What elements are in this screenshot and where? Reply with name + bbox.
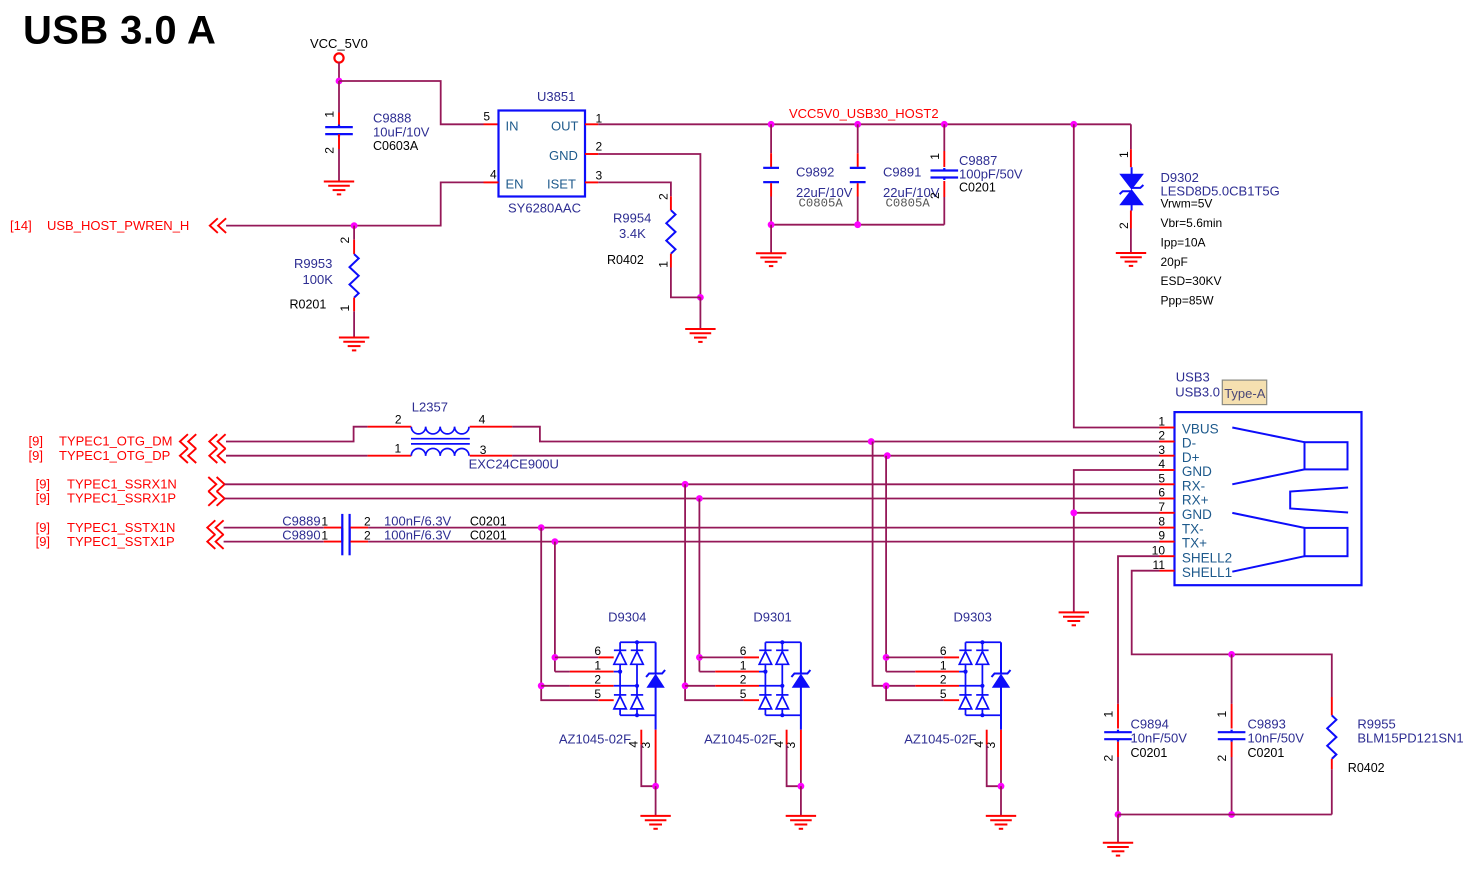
- svg-text:ESD=30KV: ESD=30KV: [1161, 274, 1222, 288]
- wire SHELL1 to R9955 top: [1132, 571, 1332, 697]
- wire D9304 pin2 branch: [541, 685, 570, 687]
- junction D9304 pins 3/4: [652, 783, 659, 790]
- pin 1 stub R9955: [1331, 697, 1333, 715]
- wire shell ground rail: [1118, 814, 1332, 816]
- svg-text:1: 1: [395, 442, 402, 456]
- junction D9301 pins 3/4: [798, 783, 805, 790]
- svg-text:C0603A: C0603A: [373, 139, 419, 153]
- wire GND pin7: [1074, 512, 1160, 514]
- off-page chevron TYPEC1_SSRX1N: [208, 477, 224, 492]
- connector USB3 body: [1175, 412, 1362, 585]
- wire D9301 pin4 to junction: [787, 745, 801, 787]
- junction D9301 pin6: [696, 654, 703, 661]
- wire D9303 pin4 to junction: [987, 745, 1001, 787]
- svg-text:USB 3.0 A: USB 3.0 A: [23, 8, 216, 52]
- pin 9 stub connector TX+: [1160, 541, 1175, 543]
- pin 5 stub D9304: [598, 699, 613, 701]
- svg-text:6: 6: [1158, 486, 1165, 500]
- wire SSRX1P to connector: [225, 498, 1160, 500]
- junction D- drop: [868, 438, 875, 445]
- svg-text:2: 2: [364, 529, 371, 543]
- wire C9893 to rail: [1231, 757, 1233, 815]
- diode array D9304 AZ1045-02F body: [614, 642, 656, 715]
- svg-text:1: 1: [323, 111, 337, 118]
- svg-text:Vbr=5.6min: Vbr=5.6min: [1161, 216, 1223, 230]
- wire D+ to connector: [887, 455, 1159, 457]
- ground below U3851: [685, 329, 715, 342]
- junction SSRX1P drop: [696, 495, 703, 502]
- ground below D9303: [986, 816, 1016, 829]
- wire rail to C9892: [770, 124, 772, 153]
- wire cap ground rail: [771, 224, 944, 226]
- ground below R9953: [339, 338, 369, 351]
- wire to C9888: [338, 81, 340, 113]
- junction C9892 top: [768, 121, 775, 128]
- svg-text:2: 2: [1215, 755, 1229, 762]
- wire D9304 N drop: [541, 528, 598, 701]
- wire to R9953: [353, 226, 355, 240]
- pin 4 stub D9303: [986, 730, 988, 745]
- svg-text:5: 5: [1158, 471, 1165, 485]
- pin 1 stub connector VBUS: [1160, 427, 1175, 429]
- svg-text:2: 2: [338, 237, 352, 244]
- junction VCC node: [336, 78, 343, 85]
- diode array D9301 AZ1045-02F body: [759, 642, 801, 715]
- op-amp U1 power switch U3851 SY6280AAC body: [499, 111, 586, 197]
- svg-text:AZ1045-02F: AZ1045-02F: [559, 732, 631, 747]
- pin 6 stub D9301: [744, 656, 759, 658]
- svg-text:GND: GND: [1182, 507, 1212, 522]
- svg-text:TX+: TX+: [1182, 536, 1207, 551]
- pin 1 stub R9954: [670, 254, 672, 268]
- off-page chevrons TYPEC1_OTG_DP: [180, 448, 196, 463]
- wire D9303 pin3 to junction: [1000, 770, 1002, 786]
- svg-text:[9]: [9]: [36, 520, 50, 535]
- junction C9893 top: [1228, 651, 1235, 658]
- wire rail to D9302: [1130, 124, 1132, 149]
- pin 3 stub L2357: [470, 455, 512, 457]
- ground below C9894: [1103, 843, 1133, 856]
- svg-text:SHELL2: SHELL2: [1182, 550, 1232, 565]
- wire D9302 to ground: [1130, 229, 1132, 254]
- svg-text:1: 1: [928, 153, 942, 160]
- svg-text:10nF/50V: 10nF/50V: [1131, 730, 1188, 745]
- svg-text:5: 5: [483, 110, 490, 124]
- pin 2 stub R9955: [1331, 759, 1333, 769]
- wire D9304 pin3 to junction: [655, 770, 657, 786]
- pin 3 stub D9304: [655, 730, 657, 770]
- svg-text:R9955: R9955: [1357, 717, 1395, 732]
- wire OTG_DM to L2357 pin2: [226, 427, 368, 442]
- wire C9889 to connector TX-: [368, 527, 1159, 529]
- USB receptacle icon: [1232, 428, 1348, 572]
- svg-text:[9]: [9]: [36, 491, 50, 506]
- svg-text:100nF/6.3V: 100nF/6.3V: [384, 528, 452, 543]
- wire GND pin4 down: [1074, 470, 1160, 612]
- wire D9303 pin5 branch: [886, 686, 944, 700]
- svg-text:C0201: C0201: [959, 181, 996, 195]
- wire C9888 to ground: [338, 149, 340, 182]
- wire to ground symbol: [699, 297, 701, 329]
- wire GND pin to ground: [598, 154, 700, 297]
- capacitor C9894: [1104, 730, 1132, 742]
- svg-text:2: 2: [596, 140, 603, 154]
- svg-text:5: 5: [594, 687, 601, 701]
- wire D9301 to ground: [800, 786, 802, 816]
- svg-text:TYPEC1_SSRX1N: TYPEC1_SSRX1N: [67, 477, 177, 492]
- off-page connector chevron USB_HOST_PWREN_H: [210, 218, 226, 233]
- svg-text:100K: 100K: [303, 272, 334, 287]
- svg-text:1: 1: [656, 261, 670, 268]
- pin 5 stub connector RX-: [1160, 483, 1175, 485]
- off-page chevron TYPEC1_SSTX1N: [207, 520, 223, 535]
- svg-text:1: 1: [594, 658, 601, 672]
- wire C9890 to connector TX+: [368, 541, 1159, 543]
- svg-text:2: 2: [940, 673, 947, 687]
- svg-text:D9304: D9304: [608, 610, 646, 625]
- wire R9955 to rail: [1331, 769, 1333, 814]
- wire rail to ground: [1117, 815, 1119, 843]
- svg-text:SHELL1: SHELL1: [1182, 565, 1232, 580]
- svg-text:2: 2: [740, 673, 747, 687]
- pin 1 stub C9892: [770, 153, 772, 167]
- svg-text:2: 2: [323, 147, 337, 154]
- wire SHELL2 to C9894: [1118, 556, 1160, 704]
- svg-text:[9]: [9]: [29, 434, 43, 449]
- wire D9303 N drop: [873, 442, 916, 686]
- wire C9887 down: [943, 197, 945, 225]
- junction GND pins: [1070, 509, 1077, 516]
- svg-text:2: 2: [594, 673, 601, 687]
- power symbol VCC_5V0: [334, 53, 343, 62]
- wire SSTX1P to C9890: [224, 541, 324, 543]
- svg-text:C0201: C0201: [1248, 746, 1285, 760]
- pin 10 stub connector SHELL2: [1160, 555, 1175, 557]
- pin 2 stub GND: [585, 153, 598, 155]
- junction SSTX1P drop: [552, 538, 559, 545]
- inductor L2357 common-mode choke: [411, 427, 470, 456]
- pin 3 stub connector D+: [1160, 455, 1175, 457]
- pin 4 stub connector GND: [1160, 469, 1175, 471]
- wire C9894 to rail: [1117, 757, 1119, 815]
- capacitor C9892: [763, 168, 779, 182]
- pin 1 stub C9890: [324, 541, 342, 543]
- svg-text:EXC24CE900U: EXC24CE900U: [469, 457, 559, 472]
- ground below C9888: [324, 182, 354, 195]
- pin 1 stub C9891: [857, 153, 859, 167]
- wire L2357 pin4 to D- net: [512, 427, 871, 442]
- svg-text:C0201: C0201: [470, 529, 507, 543]
- svg-text:2: 2: [395, 412, 402, 426]
- svg-text:3: 3: [1158, 443, 1165, 457]
- pin 6 stub D9303: [944, 656, 959, 658]
- svg-text:RX+: RX+: [1182, 493, 1209, 508]
- junction C9891 bottom: [854, 221, 861, 228]
- capacitor C9891: [850, 168, 866, 182]
- diode array D9303 AZ1045-02F body: [959, 642, 1001, 715]
- junction D9304 pin2: [538, 682, 545, 689]
- svg-text:TYPEC1_SSTX1P: TYPEC1_SSTX1P: [67, 534, 175, 549]
- wire VCC5V0_USB30_HOST2 rail: [598, 123, 1131, 125]
- wire USB_HOST_PWREN_H to EN: [226, 182, 483, 225]
- junction C9887 top: [941, 121, 948, 128]
- svg-text:6: 6: [940, 644, 947, 658]
- svg-text:R0201: R0201: [290, 298, 327, 312]
- pin 1 stub C9893: [1231, 704, 1233, 729]
- wire SSRX1N to connector: [225, 483, 1160, 485]
- resistor R9953: [350, 254, 359, 298]
- pin 5 stub D9303: [944, 699, 959, 701]
- wire D9303 pin6 branch: [886, 656, 944, 658]
- junction D9304 pin6: [552, 654, 559, 661]
- svg-text:IN: IN: [506, 118, 519, 133]
- svg-text:L2357: L2357: [412, 400, 448, 415]
- svg-text:[9]: [9]: [29, 448, 43, 463]
- svg-text:4: 4: [1158, 457, 1165, 471]
- pin 1 stub D9304: [570, 671, 614, 673]
- wire R9954 to GND node: [671, 268, 701, 298]
- svg-text:VCC5V0_USB30_HOST2: VCC5V0_USB30_HOST2: [789, 106, 939, 121]
- capacitor C9890: [342, 528, 349, 555]
- junction D9303 pins 3/4: [998, 783, 1005, 790]
- pin 4 stub D9304: [640, 730, 642, 745]
- ground below D9304: [640, 816, 670, 829]
- pin 2 stub C9892: [770, 183, 772, 196]
- pin 5 stub IN: [484, 123, 499, 125]
- svg-text:1: 1: [1117, 151, 1131, 158]
- pin 1 stub D9302: [1130, 149, 1132, 167]
- pin 3 stub D9303: [1000, 730, 1002, 770]
- svg-text:EN: EN: [506, 176, 524, 191]
- junction SSTX1N drop: [538, 524, 545, 531]
- off-page chevrons TYPEC1_OTG_DM: [180, 434, 196, 449]
- capacitor C9893: [1218, 730, 1246, 742]
- svg-text:TYPEC1_OTG_DP: TYPEC1_OTG_DP: [59, 448, 170, 463]
- svg-text:C9888: C9888: [373, 111, 411, 126]
- svg-text:9: 9: [1158, 529, 1165, 543]
- pin 2 stub connector D-: [1160, 441, 1175, 443]
- pin 1 stub C9894: [1117, 704, 1119, 729]
- pin 1 stub R9953: [353, 298, 355, 312]
- resistor R9955: [1327, 715, 1336, 759]
- svg-text:R0402: R0402: [607, 253, 644, 267]
- svg-text:D-: D-: [1182, 436, 1196, 451]
- junction VBUS drop: [1070, 121, 1077, 128]
- pin 3 stub D9301: [800, 730, 802, 770]
- svg-text:4: 4: [490, 168, 497, 182]
- pin 2 stub D9301: [715, 685, 759, 687]
- wire D9301 pin3 to junction: [800, 770, 802, 786]
- pin 1 stub C9889: [324, 527, 342, 529]
- svg-text:5: 5: [940, 687, 947, 701]
- svg-text:D9303: D9303: [954, 610, 992, 625]
- junction SSRX1N drop: [682, 481, 689, 488]
- svg-text:R9953: R9953: [294, 256, 332, 271]
- svg-text:20pF: 20pF: [1161, 255, 1188, 269]
- pin 1 stub L2357: [368, 455, 412, 457]
- svg-text:2: 2: [656, 193, 670, 200]
- pin 2 stub R9954: [670, 196, 672, 210]
- svg-text:USB3: USB3: [1176, 370, 1210, 385]
- wire D9304 pin1: [555, 671, 570, 673]
- svg-text:1: 1: [740, 658, 747, 672]
- svg-text:R0402: R0402: [1348, 761, 1385, 775]
- junction ground rail mid: [1228, 811, 1235, 818]
- ground below D9301: [786, 816, 816, 829]
- svg-text:Vrwm=5V: Vrwm=5V: [1161, 197, 1213, 211]
- wire D9301 pin1: [699, 671, 715, 673]
- wire D9301 N drop: [685, 484, 744, 700]
- svg-text:100pF/50V: 100pF/50V: [959, 166, 1023, 181]
- svg-text:[9]: [9]: [36, 534, 50, 549]
- junction D9303 pin2 branch: [883, 682, 890, 689]
- wire D9303 to ground: [1000, 786, 1002, 816]
- off-page chevron TYPEC1_SSRX1P: [208, 491, 224, 506]
- svg-text:10nF/50V: 10nF/50V: [1248, 730, 1305, 745]
- svg-text:TYPEC1_SSRX1P: TYPEC1_SSRX1P: [67, 491, 176, 506]
- pin 1 stub C9888: [338, 113, 340, 128]
- svg-text:R9954: R9954: [613, 211, 651, 226]
- pin 5 stub D9301: [744, 699, 759, 701]
- svg-text:Ipp=10A: Ipp=10A: [1161, 235, 1206, 249]
- svg-text:C9893: C9893: [1248, 717, 1286, 732]
- svg-text:C0805A: C0805A: [799, 196, 844, 210]
- pin 8 stub connector TX-: [1160, 527, 1175, 529]
- svg-text:VCC_5V0: VCC_5V0: [310, 36, 368, 51]
- off-page chevron TYPEC1_SSTX1P: [207, 534, 223, 549]
- pin 2 stub C9894: [1117, 742, 1119, 757]
- pin 4 stub L2357: [470, 426, 512, 428]
- svg-text:2: 2: [1158, 429, 1165, 443]
- wire C9892 to rail: [770, 197, 772, 225]
- svg-text:1: 1: [321, 515, 328, 529]
- ground below caps: [756, 253, 786, 266]
- svg-text:C9889: C9889: [282, 514, 320, 529]
- svg-text:TYPEC1_OTG_DM: TYPEC1_OTG_DM: [59, 434, 172, 449]
- pin 2 stub D9304: [570, 685, 614, 687]
- junction R9953 top: [351, 222, 358, 229]
- svg-text:1: 1: [338, 305, 352, 312]
- svg-text:2: 2: [1117, 222, 1131, 229]
- junction ground rail left: [1115, 811, 1122, 818]
- svg-text:BLM15PD121SN1: BLM15PD121SN1: [1357, 730, 1463, 745]
- wire ISET to R9954: [598, 182, 671, 196]
- pin 4 stub D9301: [786, 730, 788, 745]
- pin 2 stub C9889: [350, 527, 368, 529]
- pin 1 stub OUT: [585, 123, 598, 125]
- svg-text:C9892: C9892: [796, 164, 834, 179]
- svg-text:[14]: [14]: [10, 218, 32, 233]
- svg-text:2: 2: [364, 515, 371, 529]
- pin 1 stub D9303: [915, 671, 959, 673]
- pin 2 stub C9893: [1231, 742, 1233, 757]
- wire to C9893: [1231, 654, 1233, 704]
- wire OTG_DP to L2357 pin1: [226, 455, 368, 457]
- svg-text:C9890: C9890: [282, 528, 320, 543]
- svg-text:RX-: RX-: [1182, 478, 1205, 493]
- ground below connector: [1059, 612, 1089, 625]
- pin 4 stub EN: [484, 181, 499, 183]
- svg-text:TYPEC1_SSTX1N: TYPEC1_SSTX1N: [67, 520, 175, 535]
- svg-text:C0201: C0201: [1131, 746, 1168, 760]
- svg-text:C9894: C9894: [1131, 717, 1169, 732]
- resistor R9954: [666, 210, 675, 254]
- svg-text:ISET: ISET: [547, 176, 576, 191]
- capacitor C9889: [342, 514, 349, 542]
- svg-text:2: 2: [928, 192, 942, 199]
- svg-text:100nF/6.3V: 100nF/6.3V: [384, 514, 452, 529]
- svg-text:10: 10: [1152, 543, 1166, 557]
- svg-text:OUT: OUT: [551, 118, 579, 133]
- capacitor C9887: [931, 168, 959, 180]
- wire rail to C9887: [943, 124, 945, 151]
- svg-text:5: 5: [740, 687, 747, 701]
- svg-text:3: 3: [596, 169, 603, 183]
- svg-text:GND: GND: [549, 148, 578, 163]
- pin 2 stub D9302: [1130, 211, 1132, 229]
- wire C9891 to rail: [857, 197, 859, 225]
- junction C9891 top: [854, 121, 861, 128]
- svg-text:Type-A: Type-A: [1224, 386, 1266, 401]
- svg-text:4: 4: [479, 412, 486, 426]
- svg-text:U3851: U3851: [537, 89, 575, 104]
- junction C9892 bottom: [768, 221, 775, 228]
- svg-text:SY6280AAC: SY6280AAC: [508, 201, 581, 216]
- wire VCC_5V0 to IN: [339, 81, 484, 124]
- tag Type-A: [1222, 380, 1266, 405]
- svg-text:D+: D+: [1182, 450, 1200, 465]
- TVS diode D9302 bowtie: [1121, 175, 1143, 205]
- junction GND/ISET node: [697, 294, 704, 301]
- svg-text:USB_HOST_PWREN_H: USB_HOST_PWREN_H: [47, 218, 189, 233]
- svg-text:1: 1: [1158, 415, 1165, 429]
- svg-text:3.4K: 3.4K: [619, 226, 646, 241]
- wire D- to connector: [871, 441, 1159, 443]
- svg-text:AZ1045-02F: AZ1045-02F: [904, 732, 976, 747]
- svg-text:1: 1: [1215, 711, 1229, 718]
- svg-text:Ppp=85W: Ppp=85W: [1161, 293, 1215, 307]
- wire D9301 pin2 branch: [685, 685, 715, 687]
- capacitor C9888: [325, 125, 353, 137]
- wire D9304 to ground: [655, 786, 657, 816]
- svg-text:TX-: TX-: [1182, 522, 1204, 537]
- pin 2 stub C9890: [350, 541, 368, 543]
- svg-text:1: 1: [1102, 711, 1116, 718]
- wire L2357 pin3 to D+ net: [512, 455, 887, 457]
- ground below D9302: [1116, 253, 1146, 266]
- svg-text:11: 11: [1153, 558, 1166, 572]
- pin 6 stub connector RX+: [1160, 498, 1175, 500]
- wire SSTX1N to C9889: [224, 527, 324, 529]
- svg-text:10uF/10V: 10uF/10V: [373, 125, 430, 140]
- svg-text:AZ1045-02F: AZ1045-02F: [704, 732, 776, 747]
- zener of D9303: [992, 642, 1011, 729]
- wire D9304 pin6 branch: [555, 656, 598, 658]
- svg-text:2: 2: [1102, 755, 1116, 762]
- svg-text:[9]: [9]: [36, 477, 50, 492]
- pin 1 stub D9301: [715, 671, 759, 673]
- wire R9953 to ground: [353, 311, 355, 337]
- svg-text:C0201: C0201: [470, 515, 507, 529]
- pin 2 stub D9303: [915, 685, 959, 687]
- svg-text:GND: GND: [1182, 464, 1212, 479]
- pin 2 stub R9953: [353, 240, 355, 254]
- junction D+ drop: [884, 452, 891, 459]
- pin 11 stub connector SHELL1: [1160, 570, 1175, 572]
- wire D9303 pin1: [886, 671, 915, 673]
- wire D9301 pin6 branch: [699, 656, 743, 658]
- svg-text:C0805A: C0805A: [886, 196, 931, 210]
